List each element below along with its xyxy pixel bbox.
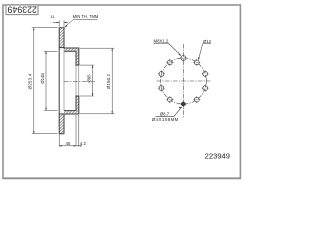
- svg-text:223949: 223949: [205, 151, 230, 160]
- svg-text:Ø150.2: Ø150.2: [106, 73, 111, 89]
- svg-text:45: 45: [66, 141, 71, 146]
- svg-text:MIN TH. 7MM: MIN TH. 7MM: [73, 14, 99, 19]
- svg-text:223949: 223949: [7, 5, 36, 15]
- svg-text:Ø65: Ø65: [87, 74, 92, 83]
- svg-text:Ø6.7: Ø6.7: [160, 112, 170, 117]
- svg-text:Ø12: Ø12: [203, 39, 212, 44]
- svg-text:Ø148: Ø148: [40, 73, 45, 84]
- svg-text:4.2: 4.2: [80, 141, 87, 146]
- svg-text:Ø253.4: Ø253.4: [28, 73, 33, 89]
- svg-text:Ø4X108MM: Ø4X108MM: [152, 117, 179, 122]
- svg-text:11: 11: [50, 14, 54, 19]
- svg-text:M8X1.2: M8X1.2: [153, 39, 168, 44]
